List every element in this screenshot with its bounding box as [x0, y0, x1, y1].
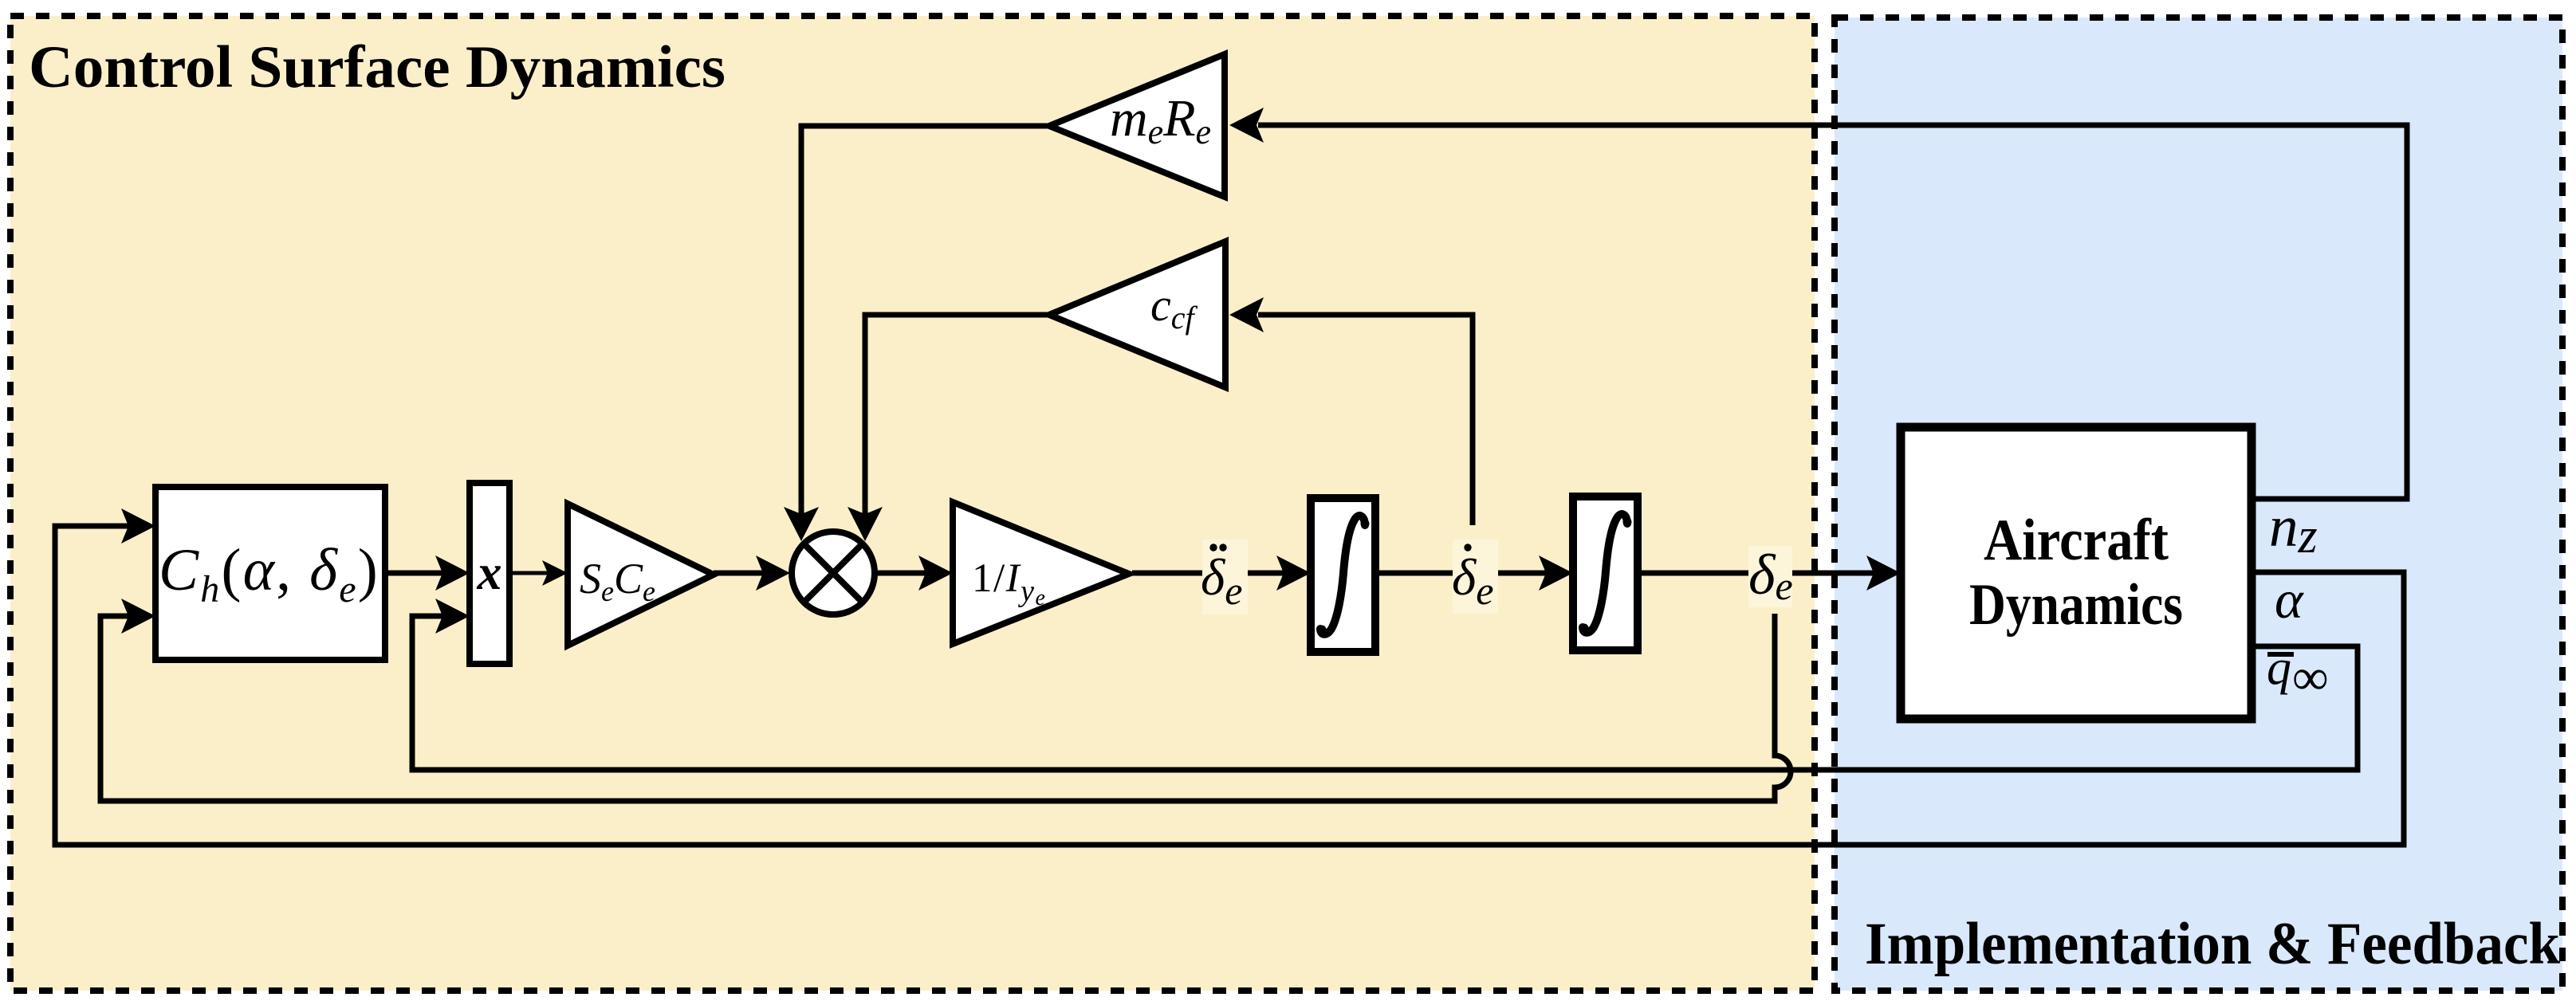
wire: 1/Iye -> integrator 1: [1132, 571, 1284, 576]
integral sign 2: [1580, 514, 1632, 633]
wire: c_cf output -> summing junction: [865, 315, 1049, 516]
wire: alpha feedback (Aircraft right -> bottom -> Ch input 1): [55, 526, 2404, 845]
arrowhead into Aircraft Dynamics: [1866, 555, 1901, 591]
wire: delta_e_dot tap -> c_cf input: [1258, 315, 1473, 525]
wire: Ch -> x block: [385, 571, 444, 576]
arrowhead down into junction (left): [784, 507, 819, 541]
wire: integrator 2 -> Aircraft Dynamics: [1638, 571, 1874, 576]
gain 1/Iye triangle: [953, 502, 1129, 644]
wire: n_z feedback (Aircraft right -> up -> m_eR_e input): [1258, 125, 2407, 499]
arrowhead into c_cf: [1229, 297, 1264, 332]
svg-text:q: q: [2267, 641, 2291, 695]
node label dot-delta_e: [1453, 540, 1498, 614]
gain m_eR_e triangle: [1049, 54, 1225, 197]
arrowhead into m_eR_e: [1229, 108, 1264, 143]
wire: x block -> SeCe gain: [509, 571, 549, 575]
arrowhead into integrator 1: [1276, 555, 1311, 591]
summing junction (multiply): [792, 532, 875, 614]
arrowhead into x block: [435, 555, 470, 591]
wire: qbar feedback (Aircraft right -> down -> x-block input 2): [412, 616, 2358, 770]
arrowhead into Ch input1: [121, 508, 155, 544]
wire: m_eR_e output -> summing junction: [801, 126, 1049, 516]
svg-text:Aircraft: Aircraft: [1984, 508, 2169, 573]
wire: junction -> 1/Iye: [876, 571, 926, 576]
arrowhead into junction: [756, 555, 790, 591]
wire: SeCe -> summing junction: [714, 571, 764, 576]
arrowhead into Ch input2: [121, 599, 155, 634]
gain c_cf triangle: [1049, 241, 1225, 387]
arrowhead down into junction (right): [848, 507, 883, 541]
block Aircraft Dynamics: [1901, 427, 2252, 719]
arrowhead into SeCe: [542, 560, 568, 586]
wire: delta_e feedback (from delta_e node down, hop, -> Ch input 2): [100, 614, 1791, 801]
svg-text:x: x: [477, 546, 502, 600]
wire: integrator 1 -> integrator 2: [1375, 571, 1547, 576]
arrowhead into x-block input2: [435, 599, 470, 634]
region: Control Surface Dynamics (yellow): [10, 16, 1815, 991]
block C_h(alpha, delta_e): [155, 487, 385, 660]
junction X cross: [804, 544, 862, 602]
node label ddot-delta_e: [1202, 540, 1248, 614]
integrator 2: [1573, 497, 1638, 650]
arrowhead into integrator 2: [1539, 555, 1573, 591]
integrator 1: [1311, 498, 1375, 652]
svg-text:∞: ∞: [2292, 649, 2329, 705]
svg-text:Control Surface Dynamics: Control Surface Dynamics: [29, 34, 726, 100]
svg-text:Dynamics: Dynamics: [1969, 572, 2183, 638]
svg-text:α: α: [2275, 569, 2304, 630]
block x (multiplier): [470, 483, 509, 664]
svg-text:Implementation & Feedback: Implementation & Feedback: [1865, 911, 2560, 977]
gain SeCe triangle: [568, 504, 714, 646]
node label delta_e: [1748, 546, 1792, 607]
integral sign 1: [1318, 516, 1370, 634]
arrowhead into 1/Iye: [918, 555, 953, 591]
region: Implementation & Feedback (blue): [1835, 18, 2562, 991]
